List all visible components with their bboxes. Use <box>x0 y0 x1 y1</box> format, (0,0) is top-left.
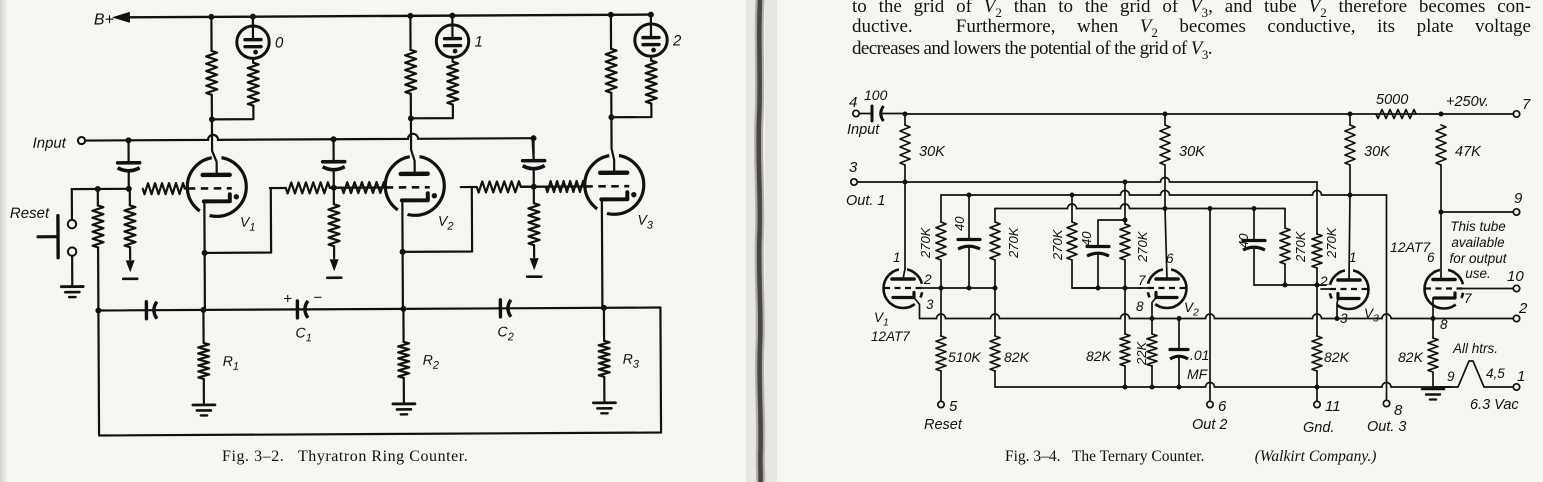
resistor plate load 2 <box>409 16 411 50</box>
svg-text:Reset: Reset <box>924 417 963 433</box>
terminal 6 Out2 <box>1209 209 1211 401</box>
svg-text:5: 5 <box>949 398 958 415</box>
svg-text:V1: V1 <box>874 310 889 329</box>
svg-text:82K: 82K <box>1398 349 1424 365</box>
svg-text:270K: 270K <box>1324 226 1339 259</box>
svg-text:Out 2: Out 2 <box>1192 417 1227 433</box>
svg-text:82K: 82K <box>1004 349 1030 365</box>
svg-text:4: 4 <box>849 94 857 111</box>
resistor bias 3 <box>533 187 535 203</box>
triode V2 <box>1148 269 1187 308</box>
wire input line <box>86 133 533 140</box>
resistor 270K e <box>1284 209 1286 229</box>
svg-text:12AT7: 12AT7 <box>1390 239 1431 255</box>
book gutter shadow <box>759 0 761 482</box>
terminal 10 <box>1463 288 1513 290</box>
indicator tube 0 <box>252 17 254 27</box>
svg-text:(Walkirt Company.): (Walkirt Company.) <box>1247 448 1376 465</box>
wire V4 cathode <box>1432 298 1434 319</box>
wire V2 cathode lead <box>1152 298 1156 319</box>
wire L3 line (V2 plate bus) <box>995 204 1285 209</box>
node plate 2 <box>408 115 414 121</box>
arrow to bias 3 <box>530 258 539 270</box>
wire V1 cathode lead <box>914 298 920 319</box>
terminal 5 Reset <box>938 401 944 407</box>
capacitor C2 <box>499 300 502 317</box>
svg-text:82K: 82K <box>1324 349 1350 365</box>
resistor plate load 3 <box>610 15 612 49</box>
resistor plate load 1 <box>210 17 212 51</box>
node B+ rail <box>126 15 651 18</box>
svg-text:Input: Input <box>32 135 66 152</box>
terminal 11 Gnd <box>1316 387 1318 401</box>
wire grid node line stage 1 <box>72 188 129 190</box>
resistor 82K d <box>1432 319 1434 339</box>
ground R1 <box>193 403 215 406</box>
svg-text:6: 6 <box>1218 398 1227 415</box>
node plate 1 <box>209 116 215 122</box>
svg-text:270K: 270K <box>1006 226 1021 259</box>
svg-text:30K: 30K <box>919 144 946 160</box>
svg-text:3: 3 <box>849 159 858 176</box>
resistor R2 <box>402 309 404 342</box>
wire V1 grid row <box>922 287 995 289</box>
wire V2 grid row <box>1072 287 1148 289</box>
svg-text:7: 7 <box>1522 96 1531 113</box>
svg-text:11: 11 <box>1325 398 1341 415</box>
svg-text:R3: R3 <box>623 351 640 371</box>
indicator tube 2 <box>650 15 652 25</box>
svg-text:9: 9 <box>1447 369 1455 384</box>
thyratron V1 <box>187 157 246 216</box>
resistor 270K d <box>1124 182 1126 224</box>
node grid 1 <box>126 186 132 192</box>
capacitor grid input 1 <box>126 137 132 143</box>
wire plate lead 2 <box>411 118 415 174</box>
resistor 510K <box>940 288 942 336</box>
paragraph line 3 <box>852 38 1531 63</box>
resistor ring feedback R <box>95 186 101 192</box>
svg-text:40: 40 <box>952 216 967 231</box>
svg-text:270K: 270K <box>1050 228 1065 261</box>
svg-text:V2: V2 <box>438 213 454 233</box>
thyratron V2 <box>385 156 444 215</box>
capacitor C1 <box>296 301 299 318</box>
capacitor .01 MF <box>1178 319 1180 349</box>
svg-text:Out. 1: Out. 1 <box>846 193 886 209</box>
svg-text:V1: V1 <box>240 214 256 234</box>
svg-text:1: 1 <box>1349 250 1357 265</box>
svg-text:V3: V3 <box>637 212 653 232</box>
wire bottom return <box>98 308 661 436</box>
wire V3 cathode lead <box>1337 299 1338 319</box>
resistor 47K <box>1436 125 1446 165</box>
svg-text:10: 10 <box>1507 268 1524 285</box>
svg-text:3: 3 <box>926 297 934 312</box>
svg-text:22K: 22K <box>1134 341 1149 366</box>
paragraph line 2 <box>852 16 1531 41</box>
svg-text:Gnd.: Gnd. <box>1303 420 1334 436</box>
node plate rail junction stage 2 <box>407 13 413 19</box>
svg-text:4,5: 4,5 <box>1486 366 1505 381</box>
svg-text:6: 6 <box>1166 251 1174 266</box>
svg-text:5000: 5000 <box>1376 92 1408 108</box>
wire V1 plate lead <box>904 182 906 269</box>
svg-text:All htrs.: All htrs. <box>1452 341 1498 356</box>
svg-text:This tube: This tube <box>1450 219 1506 234</box>
svg-text:R1: R1 <box>223 353 239 373</box>
indicator tube 1 <box>451 16 453 26</box>
resistor 30K c <box>1345 125 1355 165</box>
capacitor grid input 3 <box>531 135 537 141</box>
resistor R1 <box>202 310 204 343</box>
resistor R3 <box>603 308 605 341</box>
svg-text:6.3 Vac: 6.3 Vac <box>1470 397 1519 413</box>
svg-text:6: 6 <box>1427 250 1435 265</box>
svg-text:8: 8 <box>1440 317 1448 332</box>
wire cathode 3 <box>601 201 603 248</box>
terminal 1 heater <box>1513 384 1519 390</box>
terminal 2 <box>1513 315 1519 321</box>
svg-text:2: 2 <box>923 272 932 287</box>
node coupling junctions <box>95 307 101 313</box>
capacitor 40 b <box>1098 220 1125 245</box>
wire reset branch <box>71 189 73 219</box>
heater circuit <box>1433 361 1513 387</box>
resistor 82K b <box>1124 288 1126 334</box>
resistor grid 1 <box>143 183 185 194</box>
arrow to bias 2 <box>330 259 339 271</box>
resistor grid 2 <box>286 182 330 193</box>
triode V3 <box>1330 270 1369 309</box>
resistor 270K a <box>940 195 942 222</box>
svg-text:1: 1 <box>474 33 482 50</box>
node plate rail junction stage 1 <box>208 14 214 20</box>
svg-text:+: + <box>283 290 292 307</box>
svg-text:1: 1 <box>893 250 901 265</box>
wire cathode feedback riser 2 <box>204 188 271 253</box>
wire plate supply rail <box>905 113 1513 115</box>
resistor 82K c <box>1316 285 1318 336</box>
svg-text:47K: 47K <box>1455 144 1482 160</box>
capacitor grid input 2 <box>331 136 337 142</box>
resistor 270K c <box>1071 195 1073 222</box>
svg-text:3: 3 <box>1340 311 1348 326</box>
svg-text:270K: 270K <box>918 226 933 259</box>
svg-text:30K: 30K <box>1364 144 1391 160</box>
triode V4 output <box>1425 270 1464 309</box>
svg-text:MF: MF <box>1187 366 1209 382</box>
resistor 5000 <box>1376 110 1416 119</box>
svg-text:270K: 270K <box>1293 230 1308 263</box>
svg-text:40: 40 <box>1079 231 1094 246</box>
wire plate lead 1 <box>212 119 217 175</box>
switch Reset <box>68 220 76 228</box>
svg-text:8: 8 <box>1394 402 1403 419</box>
svg-text:.01: .01 <box>1190 347 1209 363</box>
svg-text:30K: 30K <box>1179 144 1206 160</box>
thyratron V3 <box>585 155 644 214</box>
wire out1 line L1 <box>858 178 1318 182</box>
node plate 3 <box>608 114 614 120</box>
resistor bias 2 <box>333 188 335 204</box>
capacitor C0 <box>145 302 148 319</box>
wire L2 line (V3 plate bus) <box>941 191 1387 196</box>
wire bottom bias row <box>995 383 1452 388</box>
svg-text:7: 7 <box>1138 273 1146 288</box>
resistor 30K a <box>904 114 906 126</box>
svg-text:100: 100 <box>864 87 888 103</box>
svg-text:9: 9 <box>1514 190 1523 207</box>
resistor indicator 1 <box>252 58 254 62</box>
svg-text:Reset: Reset <box>10 205 50 222</box>
wire cathode row <box>920 314 1513 319</box>
svg-text:8: 8 <box>1136 299 1144 314</box>
svg-text:available: available <box>1451 235 1504 250</box>
terminal 9 <box>1439 210 1444 215</box>
svg-text:C2: C2 <box>497 323 513 343</box>
resistor 30K b <box>1160 125 1170 165</box>
svg-text:−: − <box>313 289 322 306</box>
arrow to bias 1 <box>126 260 135 272</box>
resistor 270K f <box>1316 182 1318 234</box>
svg-text:2: 2 <box>1518 300 1528 317</box>
svg-text:12AT7: 12AT7 <box>871 329 910 344</box>
node grid 2 <box>331 185 337 191</box>
wire coupling line <box>98 308 660 311</box>
svg-text:R2: R2 <box>423 352 439 372</box>
svg-text:C1: C1 <box>295 324 311 344</box>
resistor bias 1 <box>129 189 131 205</box>
resistor 82K a <box>994 288 996 336</box>
wire cathode 2 <box>401 202 403 249</box>
svg-text:2: 2 <box>672 32 682 49</box>
wire plate lead 3 <box>611 117 614 173</box>
terminal 8 Out3 <box>1386 195 1388 400</box>
svg-text:for output: for output <box>1449 251 1507 266</box>
svg-text:7: 7 <box>1464 291 1472 306</box>
svg-text:0: 0 <box>275 35 284 52</box>
svg-text:Input: Input <box>847 122 880 138</box>
ground reset <box>61 285 83 288</box>
terminal Input <box>78 137 85 144</box>
svg-text:82K: 82K <box>1086 348 1112 364</box>
svg-text:B+: B+ <box>94 11 114 28</box>
resistor 22K <box>1151 319 1153 335</box>
svg-text:+250v.: +250v. <box>1446 94 1489 110</box>
wire V3 grid row <box>1254 284 1330 286</box>
ground symbol <box>1422 388 1444 391</box>
svg-text:1: 1 <box>1517 368 1525 385</box>
paragraph line 1 <box>852 0 1531 21</box>
node grid 3 <box>531 184 537 190</box>
ground R2 <box>393 402 415 405</box>
svg-text:Fig. 3–2. Thyratron Ring Cou: Fig. 3–2. Thyratron Ring Counter. <box>222 448 468 465</box>
capacitor 40 c <box>1253 209 1255 240</box>
resistor grid 3 <box>477 181 521 192</box>
svg-text:Out. 3: Out. 3 <box>1367 419 1407 435</box>
svg-text:510K: 510K <box>948 349 981 365</box>
svg-text:V3: V3 <box>1364 306 1379 325</box>
resistor indicator 2 <box>451 57 453 61</box>
triode V1 <box>884 269 923 308</box>
resistor 270K b <box>994 209 996 223</box>
svg-text:2: 2 <box>1319 274 1328 289</box>
resistor indicator 3 <box>650 56 652 60</box>
svg-text:use.: use. <box>1465 266 1491 281</box>
svg-text:V2: V2 <box>1184 300 1199 319</box>
svg-text:Fig. 3–4. The Ternary Counte: Fig. 3–4. The Ternary Counter. <box>1005 448 1204 465</box>
svg-text:270K: 270K <box>1135 230 1150 263</box>
ground R3 <box>593 401 615 404</box>
capacitor 40 a <box>968 195 970 238</box>
svg-text:40: 40 <box>1236 233 1251 248</box>
B+ arrow <box>112 12 130 23</box>
node plate rail junction stage 3 <box>608 12 614 18</box>
wire cathode 1 <box>203 203 205 250</box>
wire cathode feedback riser 3 <box>402 187 472 252</box>
